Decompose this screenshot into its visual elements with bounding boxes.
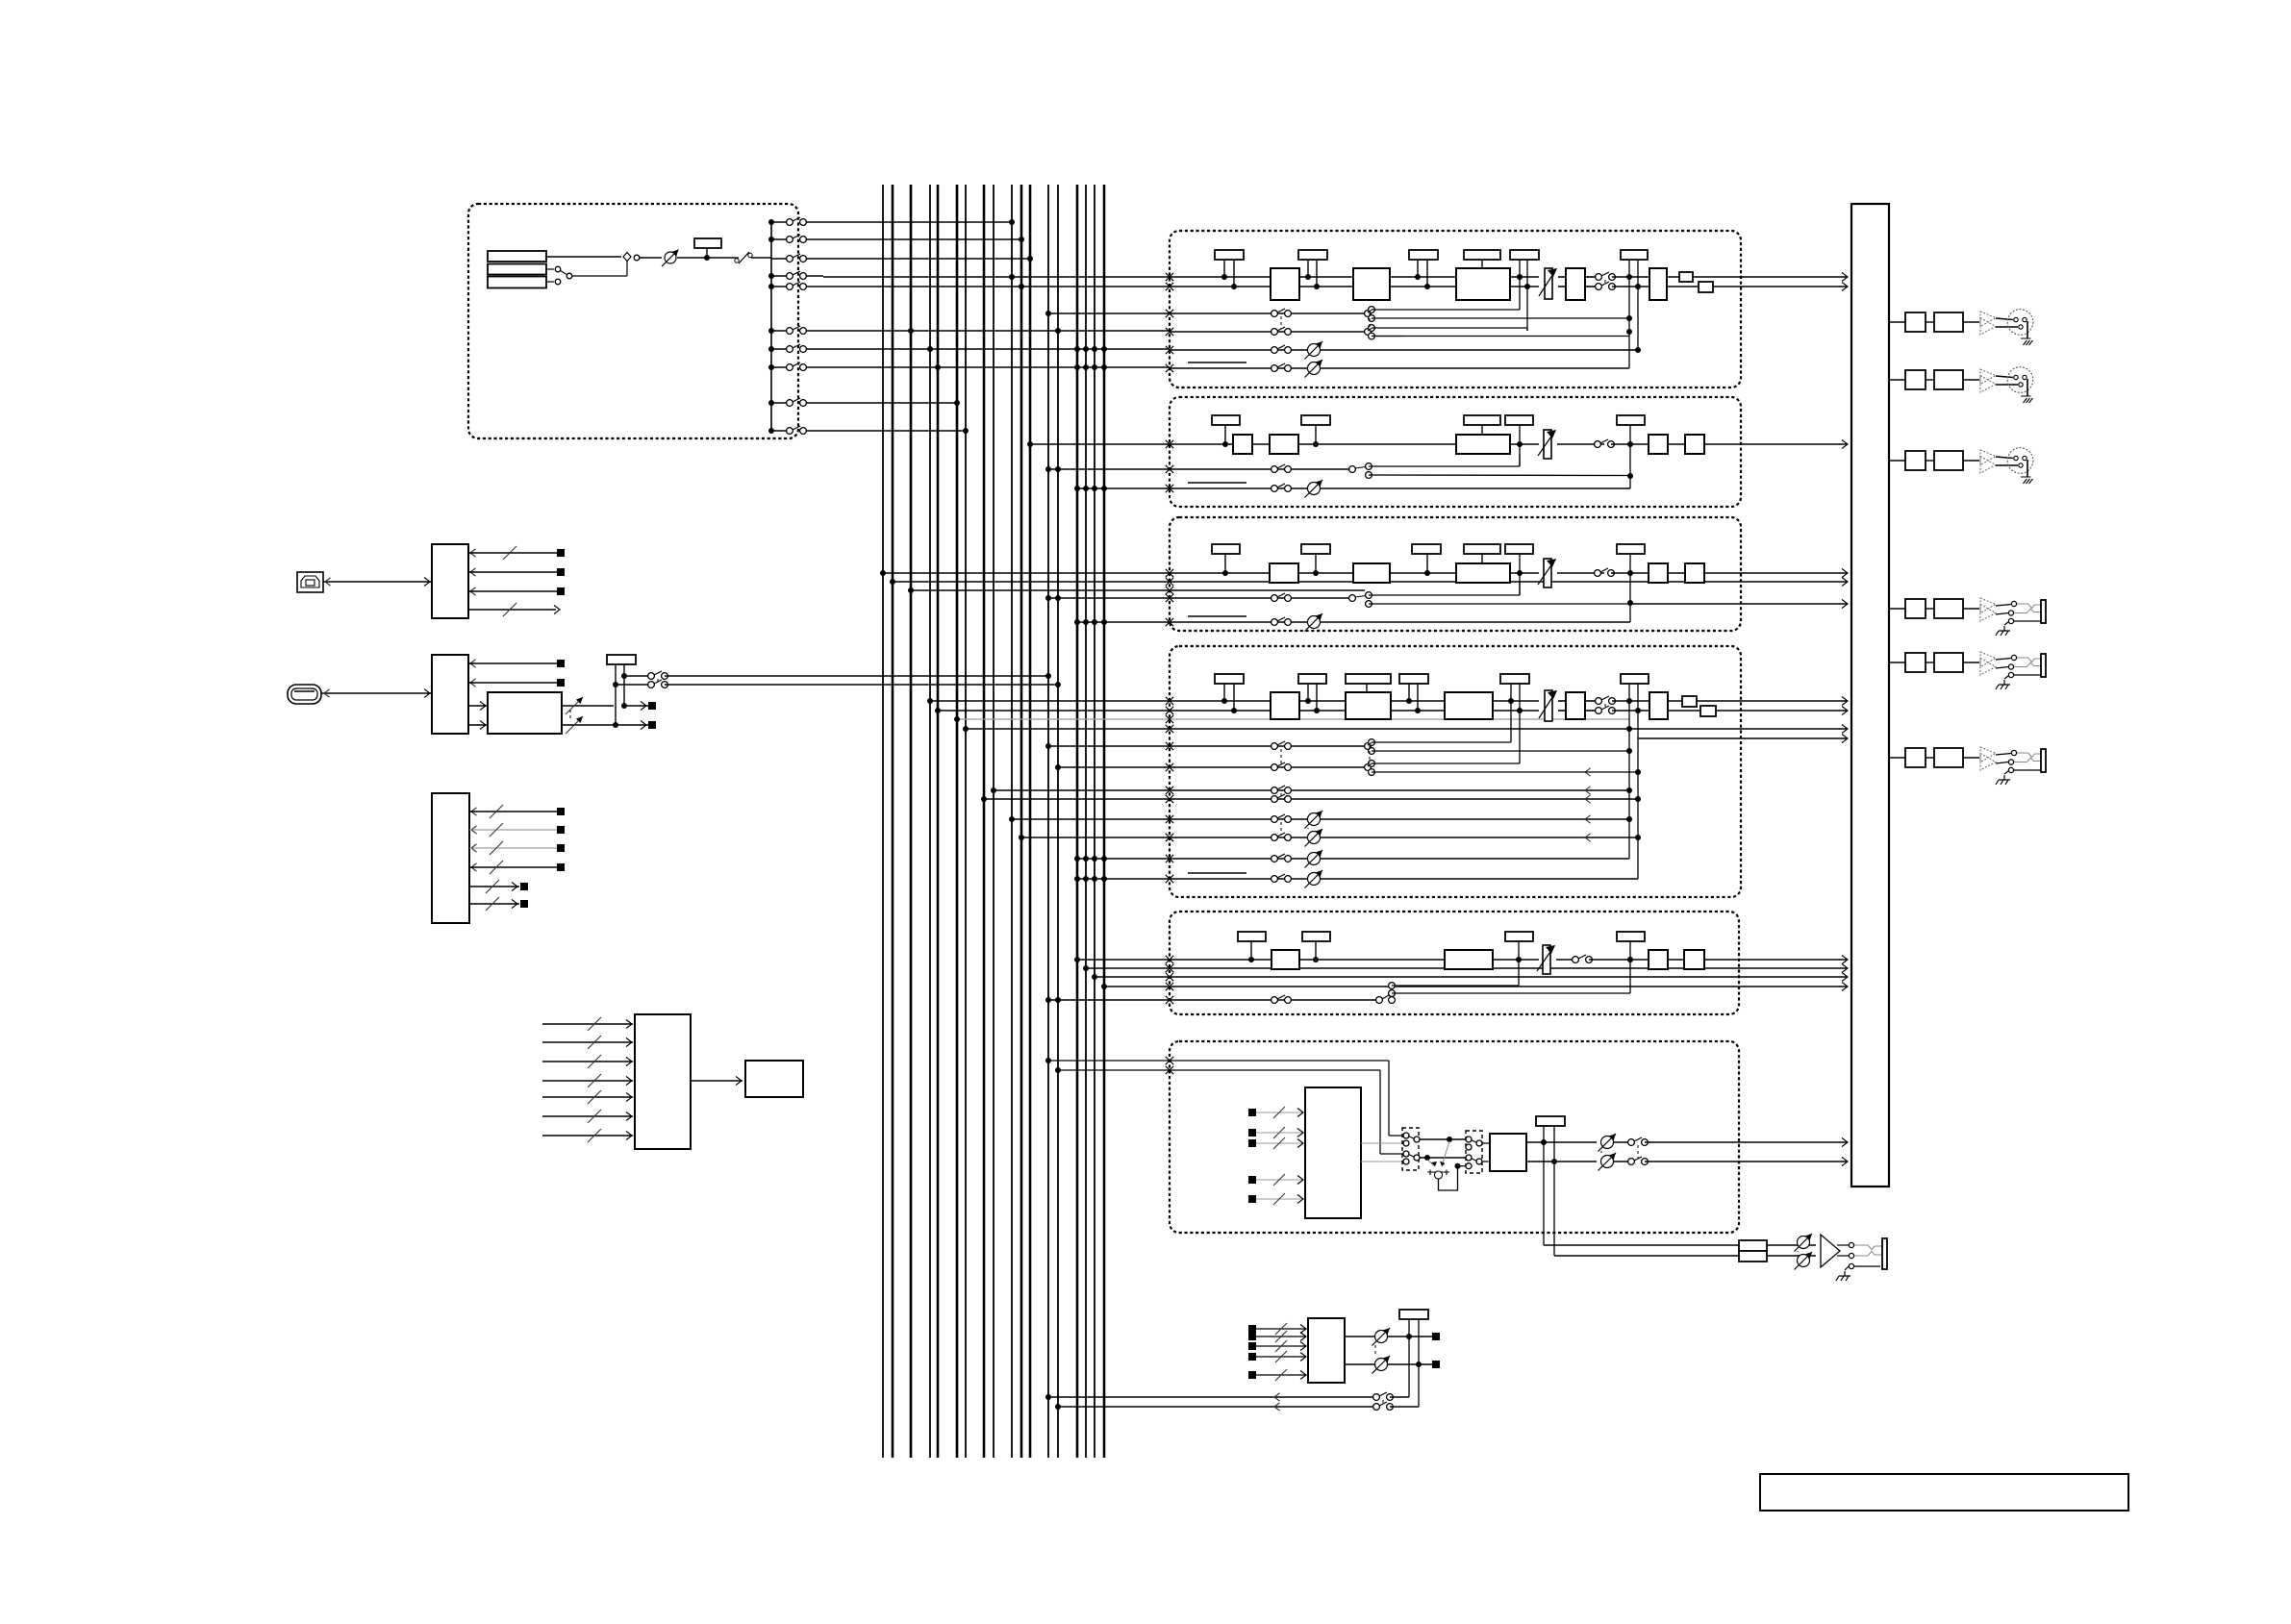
label block S3-T6 stem [1629, 555, 1631, 622]
switch S-A12 (assign row 9) [768, 400, 774, 406]
wire U5 in4 [542, 1080, 633, 1082]
wire U1 pin4 [468, 609, 556, 611]
wire strip4 fx row2 [1021, 837, 1638, 838]
wire S6 mid R [1420, 1157, 1466, 1159]
wire bus line B13 [1047, 185, 1049, 1458]
label block S3-T2 [1301, 544, 1330, 554]
wire MT1 ring [1996, 613, 2008, 615]
pot S3-VR1 [1308, 616, 1321, 629]
block S4-B3 (eq) [1445, 692, 1493, 719]
wire strip6 input R from bus [1058, 1069, 1380, 1071]
connector TRS3 [2041, 749, 2046, 772]
wire strip4 return row2 [984, 798, 1638, 800]
wire MT3 seg [1926, 757, 1934, 759]
driver MT2 [1980, 652, 1996, 667]
wire master out trs row2 [1889, 662, 1905, 663]
level trim pair (ganged) [562, 705, 614, 707]
switch S1-SW2 (aux pair) [1271, 311, 1278, 317]
switch S4-SW7 [1271, 876, 1278, 883]
wire bus line B1 [882, 185, 884, 1458]
wire S3 aux branch b [1369, 603, 1630, 605]
wire S6 post L [1526, 1141, 1597, 1143]
block MT2a [1905, 653, 1926, 672]
switch S3-SW3 [1349, 595, 1356, 602]
wire U2 to U3 lower [468, 724, 488, 726]
block M1b [1934, 312, 1963, 332]
label block S3-T4 (eq) [1464, 544, 1500, 554]
label block S5-T3 stem [1518, 941, 1520, 986]
wire S1 out L [1667, 276, 1848, 278]
wire strip4 main L tap [930, 700, 1271, 702]
wire monitor return 1 [1048, 1396, 1375, 1398]
wire strip4 main R tap [938, 710, 1271, 712]
ground TRS3 [2008, 767, 2013, 772]
wire strip1 main L [1170, 276, 1271, 278]
switch S-A5 (assign row 2) [768, 237, 774, 242]
wire bus line B12 [1029, 185, 1032, 1458]
wire J2 to selector [546, 268, 554, 270]
switch S1-SW (ganged mute) [1596, 274, 1602, 281]
wire S5 out [1704, 959, 1848, 961]
pot S4-VR3 [1308, 873, 1321, 886]
wire aux branch c [1372, 327, 1527, 329]
block S1-B3 (eq) [1456, 268, 1510, 300]
wire S6 seg L [1614, 1141, 1631, 1143]
block S4-B6 (small) [1682, 696, 1697, 707]
block MT3b [1934, 748, 1963, 767]
wire master out row2 [1889, 379, 1905, 381]
wire U2 pin2 [470, 679, 476, 687]
wire U5 in7 [542, 1135, 633, 1137]
wire S6 out R [1645, 1161, 1848, 1162]
wire bus line B11 [1020, 185, 1023, 1458]
switch S2-SW4 [1271, 486, 1278, 492]
wire S4 out L [1668, 700, 1848, 702]
wire S2 seg3 [1510, 443, 1539, 445]
wire S3 out [1704, 572, 1848, 574]
label block S4-T1 [1215, 674, 1244, 684]
switch S3-SW1 [1595, 570, 1601, 577]
wire S5 seg4 [1589, 959, 1649, 961]
wire S4 aux out 1 [1629, 728, 1848, 730]
wire bus line B9 [993, 185, 994, 1458]
wire S1 seg6 [1585, 276, 1599, 278]
pot S1-VR2 [1308, 362, 1321, 375]
switch U7-SW (ganged) [1373, 1394, 1380, 1401]
switch S5-SW1 [1573, 957, 1579, 963]
wire bus line B18 [1103, 185, 1106, 1458]
block S1-B6 (small) [1679, 272, 1693, 282]
block S5-B2 [1445, 950, 1493, 969]
driver MT3 [1980, 747, 1996, 762]
wire strip1 aux row2 right tail [1372, 336, 1629, 337]
wire S6 dsp in3 [1248, 1139, 1256, 1147]
switch S-A2 lever [560, 270, 567, 275]
wire row A6 (aux send a) [823, 330, 1170, 332]
wire row A8 (aux send c) [823, 366, 1170, 368]
wire strip1 aux row2 [1166, 328, 1173, 336]
block S2-B2 [1270, 435, 1298, 454]
wire master out trs row3 [1889, 757, 1905, 759]
wire S3 seg2 [1390, 572, 1456, 574]
block S2-B5 [1685, 435, 1704, 454]
block S4-B7 (small) [1700, 706, 1716, 716]
node U3L [615, 664, 617, 725]
block HP-B1 (phones amp upper) [1739, 1240, 1767, 1251]
driver M3 [1980, 450, 1996, 465]
wire M3 seg [1926, 460, 1934, 462]
switch S-A8 (assign row 5) [768, 284, 774, 289]
block S3-B3 (eq) [1456, 563, 1510, 583]
wire S6 mid L [1420, 1138, 1466, 1140]
wire S6 dsp in4 [1248, 1176, 1256, 1184]
ground phones [1849, 1263, 1853, 1268]
wire strip1 main R [1170, 286, 1271, 287]
wire strip5 passthrough 2 [1095, 976, 1848, 978]
ground TRS2 [2008, 672, 2013, 677]
wire S5 seg2 [1493, 959, 1539, 961]
wire S6 dsp out L (grey) [1361, 1142, 1404, 1144]
block U2 (USB-A interface) [432, 655, 468, 734]
wire U7 in5 [1248, 1371, 1256, 1379]
wire M1 seg [1926, 321, 1934, 323]
wire strip5 aux row [1048, 999, 1379, 1001]
label block S5-T2 [1302, 932, 1330, 941]
dashed box strip 4 (stereo channel) [1170, 646, 1741, 897]
title block [1760, 1474, 2128, 1511]
label block S3-T3 [1412, 544, 1441, 554]
fader S1 [1545, 268, 1552, 299]
wire USB-A to U2 [321, 692, 432, 694]
pot S6-VR (ganged master level) [1601, 1137, 1614, 1149]
wire S4 aux branch b [1372, 750, 1629, 752]
wire bus line B6 [956, 185, 959, 1458]
wire S1 seg5 [1558, 276, 1566, 278]
wire U4 pin1 [471, 808, 477, 815]
wire U4 pin6 [469, 903, 519, 905]
wire row A2 to bus [823, 238, 1021, 240]
wire row A1 to bus [823, 221, 1012, 223]
wire S3 seg5 [1611, 572, 1649, 574]
wire MT1 seg [1926, 608, 1934, 610]
block S6-B1 (master amp) [1490, 1134, 1526, 1171]
switch S-A10 (assign row 7) [768, 346, 774, 352]
dashed box strip 1 (stereo channel) [1170, 231, 1741, 387]
wire M3 seg2 [1963, 460, 1979, 462]
wire bus line B5 [937, 185, 940, 1458]
wire strip3 main tap [883, 572, 1270, 574]
wire U7 out2 [1345, 1363, 1432, 1365]
wire strip6 input L from bus [1048, 1060, 1389, 1062]
switch S-A3 (slash) [736, 257, 739, 259]
block U3 (DAC) [488, 692, 562, 734]
wire U4 pin4 [471, 863, 477, 871]
connector USB-A icon [288, 685, 321, 704]
block MT2b [1934, 653, 1963, 672]
wire MT1 tip [1996, 605, 2011, 607]
wire M3 to xlr R [1996, 464, 2018, 466]
label block S2-T3 (eq) [1464, 415, 1500, 425]
dashed box strip 3 (mono channel) [1170, 517, 1741, 631]
wire S6 seg R [1614, 1161, 1631, 1162]
wire U7 in2 [1248, 1333, 1256, 1340]
wire S4 seg4 [1558, 700, 1566, 702]
wire U7 in1 [1248, 1325, 1256, 1333]
label block A2 (usb level) [607, 655, 636, 664]
connector USB-B icon [297, 572, 323, 592]
wire S4 aux branch d [1372, 771, 1638, 773]
block M2a [1905, 370, 1926, 389]
pot S4-VR2 [1308, 853, 1321, 865]
wire J3 stub [546, 281, 554, 283]
wire U2 pin1 [470, 660, 476, 667]
dashed box strip 6 (master / dsp section) [1170, 1041, 1739, 1233]
block U6 (indicator) [745, 1061, 803, 1097]
wire phones L feed [1544, 1244, 1739, 1246]
wire S2 seg6 [1668, 443, 1685, 445]
switch S-A9 (assign row 6) [768, 328, 774, 334]
wire row A3 to bus [823, 258, 1030, 260]
wire U5 in3 [542, 1061, 633, 1062]
switch S3-SW2 [1271, 595, 1278, 602]
switch group S6-SW2 (dashed) [1466, 1131, 1482, 1173]
wire strip1 aux row4 [1166, 364, 1173, 372]
wire strip4 fx row1 [1012, 818, 1629, 820]
label block S4-T6 stems [1628, 684, 1630, 859]
wire M2 seg [1926, 379, 1934, 381]
connector XLR2 [2007, 367, 2033, 393]
fader S2 [1544, 430, 1551, 459]
switch S3-SW4 [1271, 619, 1278, 626]
wire bus line B3 [910, 185, 913, 1458]
block MT3a [1905, 748, 1926, 767]
wire S6 dsp in5 [1248, 1195, 1256, 1203]
connector J2 (box A source 2) [488, 264, 546, 275]
wire bus line B4 [929, 185, 931, 1458]
wire U7 in4 [1248, 1353, 1256, 1361]
wire S6 dsp in2 [1248, 1129, 1256, 1137]
pot HP-VR (ganged) [1798, 1237, 1810, 1249]
wire S5 seg5 [1668, 959, 1684, 961]
wire strip1 aux row3 [1166, 346, 1173, 354]
wire S3 seg1 [1298, 572, 1353, 574]
wire S3 seg4 [1557, 572, 1604, 574]
wire M3 to xlr L [1996, 457, 2013, 459]
wire U4 pin3 [471, 844, 477, 852]
wire U1 pin3 [470, 587, 476, 595]
switch S-A13 (assign row 10) [768, 428, 774, 434]
switch S4-SW4 (ganged) [1271, 787, 1278, 794]
wire MT3 ring [1996, 762, 2008, 764]
switch group S6-SW1 (dashed) [1402, 1128, 1419, 1170]
wire strip4 return row1 [994, 789, 1629, 791]
wire MT2 ring [1996, 667, 2008, 669]
node A feed line [770, 222, 772, 431]
wire strip4 pan row2 [1077, 878, 1638, 880]
switch S4-SW5 (ganged) [1271, 816, 1278, 823]
wire strip3 aux row1 [1048, 597, 1352, 599]
wire row A5 to strip1 R input [823, 286, 1170, 287]
wire to level pot [640, 257, 662, 259]
block U7 (talkback) [1308, 1318, 1345, 1383]
block S2-B4 [1649, 435, 1668, 454]
wire aux branch a [1372, 309, 1520, 311]
block S5-B1 [1271, 950, 1299, 969]
wire M2 seg2 [1963, 379, 1979, 381]
switch S1-SW4 [1271, 347, 1278, 354]
dashed box strip 5 (mono channel) [1170, 912, 1739, 1014]
wire strip4 aux row1 [1048, 745, 1368, 747]
block S4-B5 [1649, 692, 1668, 719]
switch S4-SW3 (pre/post ganged) [1365, 743, 1372, 750]
wire MT2 tip [1996, 659, 2011, 661]
wire S3 aux branch a [1369, 594, 1520, 596]
label block S4-T4 [1399, 674, 1428, 684]
wire S4 seg5 [1585, 700, 1599, 702]
label block S3-T5 stem [1519, 555, 1521, 595]
wire bus line B16 [1085, 185, 1087, 1458]
wire strip5 passthrough 1 [1086, 967, 1848, 969]
wire strip3 passthrough 2 [911, 589, 1365, 591]
wire HP out L [1837, 1244, 1849, 1246]
wire MT3 tip [1996, 754, 2011, 756]
wire USB-B to U1 [323, 581, 432, 583]
block S3-B1 [1270, 563, 1298, 583]
block S1-B7 (small) [1699, 282, 1713, 292]
block S1-B4 [1566, 268, 1585, 300]
wire S6 to block [1482, 1142, 1490, 1144]
wire S5 aux branch b [1392, 992, 1630, 994]
switch S2-SW2 [1271, 466, 1278, 473]
wire S2 seg4 [1557, 443, 1604, 445]
switch S4-SW1 (ganged) [1596, 698, 1602, 705]
wire phones R feed [1554, 1255, 1739, 1257]
wire J1 output [546, 256, 621, 258]
wire U1 pin2 [470, 568, 476, 576]
label block S2-T4 stem [1519, 426, 1521, 466]
wire S4 out R [1668, 710, 1848, 712]
wire S1 seg7 [1612, 276, 1649, 278]
block S2-B1 [1233, 435, 1252, 454]
block MT1a [1905, 599, 1926, 618]
wire bus line B8 [983, 185, 986, 1458]
wire M2 to xlr L [1996, 376, 2013, 378]
wire U5 to U6 [691, 1080, 743, 1082]
switch S5-SW2 [1271, 997, 1278, 1004]
wire M1 seg2 [1963, 321, 1979, 323]
label block S1-T3 [1409, 250, 1438, 260]
wire strip4 passthrough 1 (grey) [957, 718, 1629, 720]
wire S1 seg3 [1390, 276, 1456, 278]
block S1-B2 (hpf) [1353, 268, 1390, 300]
wire U7 out1 square [1432, 1333, 1440, 1340]
wire row A4 to strip1 L input [823, 276, 1170, 278]
block U5 (key matrix) [635, 1014, 691, 1149]
label block S6-T1 stems [1543, 1125, 1545, 1245]
transistor Q1 (mute) [1442, 1141, 1449, 1166]
wire MT1 seg2 [1963, 608, 1979, 610]
wire U2 to U3 upper [468, 705, 488, 707]
label block S1-T6 stems [1628, 259, 1630, 368]
switch S-A6 (assign row 3) [771, 258, 789, 260]
label block U7-T stems [1408, 1318, 1410, 1397]
wire strip3 aux row2 [1077, 621, 1630, 623]
wire strip4 pan row1 [1077, 858, 1629, 860]
block U4 (control I/O) [432, 793, 469, 923]
switch S-A11 (assign row 8) [768, 364, 774, 370]
fader S4 [1545, 690, 1552, 721]
wire aux branch d [1372, 336, 1404, 337]
wire master out row3 [1889, 460, 1905, 462]
wire U4 pin5 [469, 886, 519, 887]
wire S4 aux out 2 [1638, 737, 1848, 739]
wire strip5 main tap [1077, 959, 1271, 961]
wire bus line B17 [1094, 185, 1095, 1458]
wire S2 aux branch a [1369, 465, 1520, 467]
wire MT3 seg2 [1963, 757, 1979, 759]
wire M1 to xlr L [1996, 318, 2013, 320]
pot S2-VR1 [1308, 483, 1321, 495]
switch S1-SW3 (pre/post) [1365, 311, 1372, 317]
wire row A7 (aux send b) [823, 348, 1170, 350]
wire S4 seg6 [1612, 700, 1649, 702]
label block S1-T1 [1215, 250, 1244, 260]
wire S6 dsp out R (grey) [1361, 1161, 1404, 1162]
wire U1 pin1 [470, 549, 476, 557]
wire bus line B15 [1076, 185, 1079, 1458]
connector TRS1 [2041, 600, 2046, 623]
wire S6 dsp in1 [1248, 1109, 1256, 1116]
switch S-U1 (usb to bus L) [624, 675, 650, 677]
wire S2 seg2 [1298, 443, 1456, 445]
wire master out trs row1 [1889, 608, 1905, 610]
switch S-A4 (assign row 1) [768, 219, 774, 225]
block master bus connector [1851, 204, 1889, 1187]
wire S1 seg2 [1299, 276, 1353, 278]
driver M1 [1980, 312, 1996, 327]
label block S1-T5 stems [1519, 259, 1521, 310]
block M3b [1934, 451, 1963, 470]
fader S5 [1543, 945, 1550, 974]
wire S1 seg4 [1510, 276, 1539, 278]
switch S-U2 (usb to bus R) [616, 684, 650, 686]
wire S3 seg6 [1668, 572, 1685, 574]
label block S5-T4 stem [1629, 941, 1631, 993]
wire pot to switch [677, 257, 736, 259]
label block A1 [694, 238, 721, 248]
pot S1-VR1 [1308, 344, 1321, 357]
wire master out row1 [1889, 321, 1905, 323]
wire return 2 up [1390, 1406, 1419, 1408]
connector phones jack [1854, 1245, 1882, 1250]
switch S6-SW3 (ganged) [1628, 1139, 1635, 1146]
wire S4 seg3 [1493, 700, 1539, 702]
switch S4-SW6 [1271, 856, 1278, 862]
wire S5 seg3 [1556, 959, 1573, 961]
label block S1-T2 [1298, 250, 1327, 260]
block S5-B3 [1649, 950, 1668, 969]
block S4-B1 [1271, 692, 1299, 719]
wire usb monitor R out [616, 724, 648, 726]
wire strip2 aux row1 [1048, 468, 1352, 470]
wire usb monitor L out [624, 705, 648, 707]
wire S5 seg1 [1299, 959, 1445, 961]
label block S4-T5 stems [1510, 684, 1512, 742]
label block S2-T5 stem [1629, 426, 1631, 488]
pot S4-VR1 (ganged pair) [1308, 813, 1321, 826]
wire bus line B10 [1011, 185, 1013, 1458]
wire U7 in3 [1248, 1342, 1256, 1350]
